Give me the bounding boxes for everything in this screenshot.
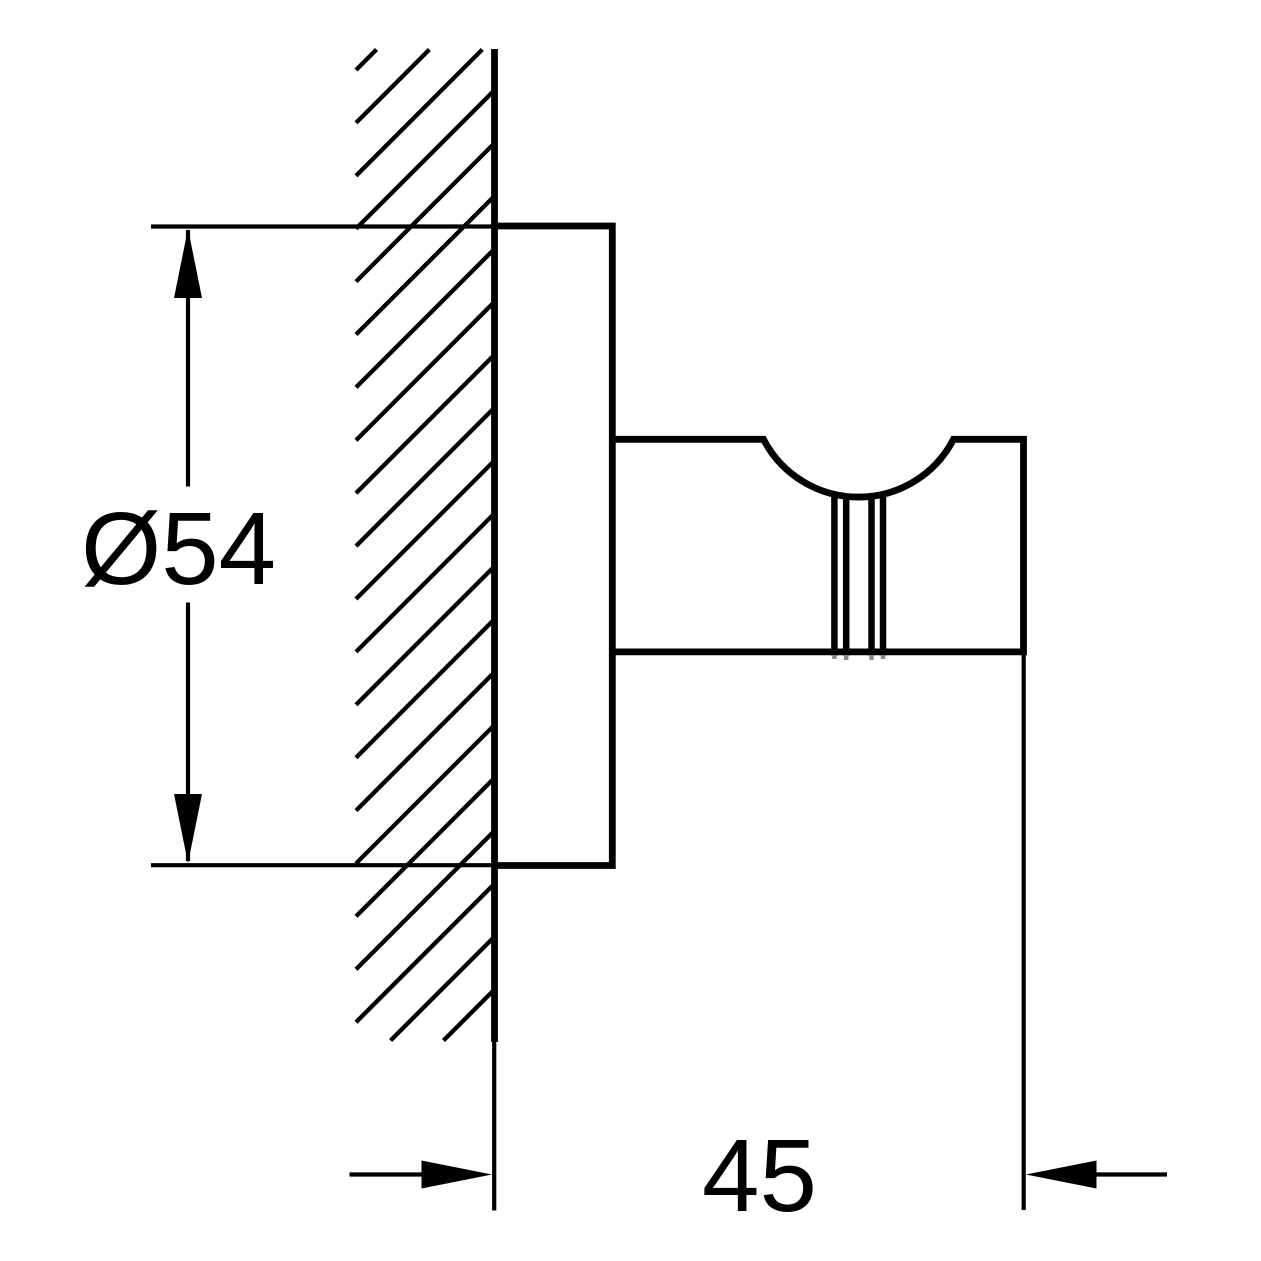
hook waist line 2 bbox=[843, 496, 850, 656]
svg-text:45: 45 bbox=[702, 1117, 817, 1233]
wall extension line below (45 left) bbox=[492, 1042, 496, 1211]
extension line top (diameter 54 upper) bbox=[151, 224, 495, 228]
hook waist line 1 bbox=[831, 494, 838, 656]
extension line bottom (diameter 54 lower) bbox=[151, 863, 495, 867]
hook waist line 3 bbox=[868, 496, 875, 656]
wall surface line bbox=[491, 49, 498, 1042]
dimension line 45 right bbox=[1095, 1172, 1167, 1176]
wall hatching bbox=[356, 50, 495, 1041]
dimension line diameter 54 upper segment bbox=[186, 230, 190, 487]
dimension line diameter 54 lower segment bbox=[186, 603, 190, 862]
arrowhead diameter 54 down bbox=[174, 794, 202, 863]
arrowhead diameter 54 up bbox=[174, 229, 202, 299]
hook waist line 4 bbox=[880, 494, 887, 656]
hook body outline with concave dip bbox=[612, 439, 1023, 652]
arrowhead 45 left bbox=[422, 1161, 493, 1189]
dimension line 45 left bbox=[350, 1172, 425, 1176]
hook waist line stubs below bottom edge bbox=[834, 655, 883, 660]
extension line below hook right edge bbox=[1022, 652, 1026, 1210]
arrowhead 45 right bbox=[1026, 1161, 1097, 1189]
svg-text:Ø54: Ø54 bbox=[81, 491, 276, 606]
mounting plate (wall flange, side view) bbox=[495, 226, 613, 866]
